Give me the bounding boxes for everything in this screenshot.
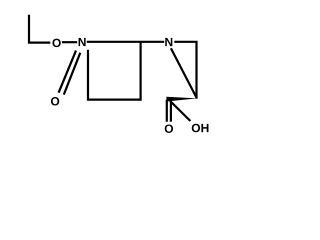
node N1 (left nitrogen) xyxy=(79,38,86,46)
wire double bond N1=O2 line 1 xyxy=(59,51,76,93)
wedge bond carboxyl C to ring C xyxy=(166,97,197,102)
node O4 (hydroxyl oxygen) xyxy=(192,124,200,133)
wire bond C-OH xyxy=(170,101,190,121)
wire ethyl chain CH3-CH2 then bond to O1 xyxy=(29,15,50,43)
wire left ring left side, bottom, right side xyxy=(88,42,141,100)
node H4 (hydroxyl hydrogen) xyxy=(201,124,208,132)
wire bond N2 right then down (ring right side) xyxy=(174,42,196,99)
wire C=O double bond line 1 xyxy=(166,100,168,122)
wire ring top horizontal N1 to N2 xyxy=(87,41,164,43)
node O2 (N-oxide oxygen) xyxy=(51,97,59,106)
node N2 (right nitrogen) xyxy=(165,38,172,46)
wire bond O1-N1 xyxy=(62,41,77,43)
wire C=O double bond line 2 xyxy=(170,100,172,122)
node O1 (ethoxy oxygen) xyxy=(52,39,60,48)
node O3 (carbonyl oxygen) xyxy=(165,124,173,133)
wire diagonal bond N2 to ring carbon xyxy=(171,48,197,97)
wire double bond N1=O2 line 2 xyxy=(64,53,81,95)
